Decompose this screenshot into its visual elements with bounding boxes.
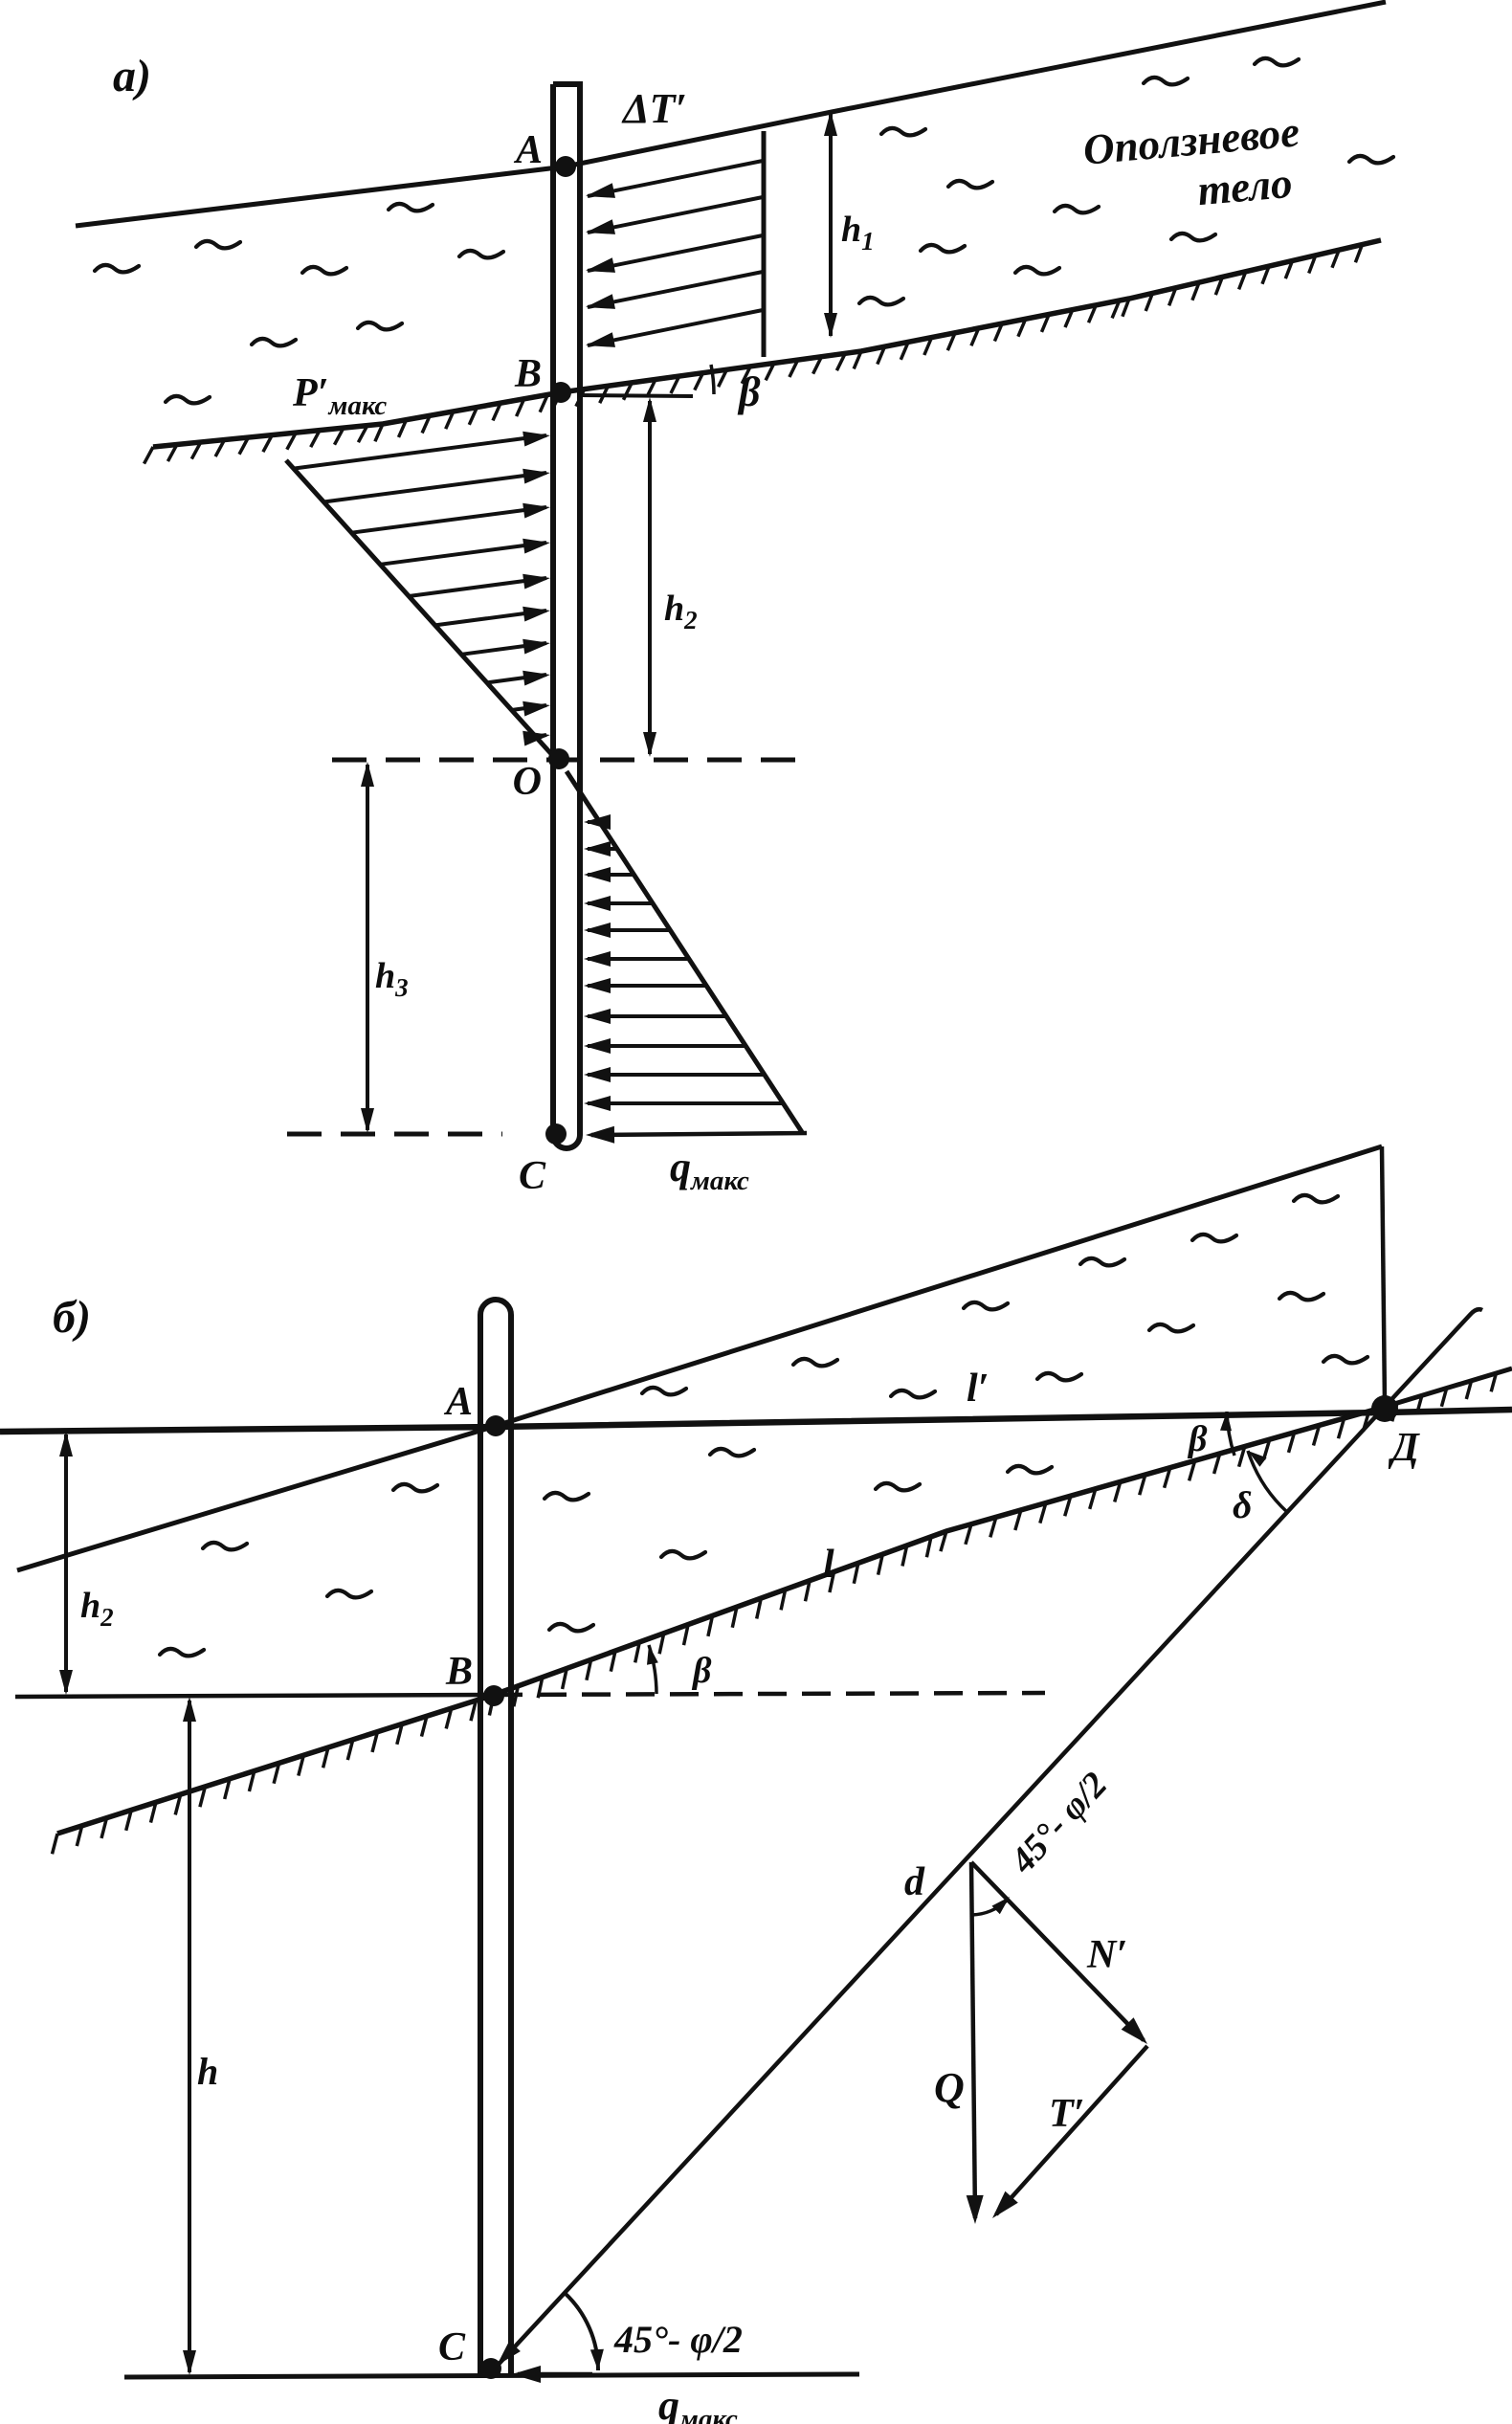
svg-text:45°- φ/2: 45°- φ/2 (613, 2318, 743, 2361)
svg-text:h: h (197, 2050, 218, 2093)
svg-text:l′: l′ (967, 1367, 989, 1411)
svg-text:б): б) (53, 1292, 91, 1343)
svg-text:B: B (445, 1650, 473, 1694)
svg-text:C: C (438, 2325, 466, 2369)
svg-text:δ: δ (1233, 1483, 1253, 1526)
svg-text:Q: Q (934, 2064, 965, 2111)
svg-text:N′: N′ (1086, 1933, 1127, 1977)
svg-text:β: β (691, 1651, 712, 1691)
svg-text:Д: Д (1388, 1426, 1420, 1470)
svg-text:T′: T′ (1049, 2092, 1084, 2136)
svg-text:A: A (443, 1380, 473, 1424)
svg-text:l: l (823, 1543, 834, 1587)
svg-text:A: A (513, 128, 543, 172)
svg-text:β: β (737, 368, 761, 415)
svg-text:C: C (519, 1154, 546, 1198)
svg-text:β: β (1187, 1419, 1208, 1459)
svg-text:O: O (513, 760, 542, 804)
svg-text:тело: тело (1195, 159, 1294, 214)
svg-text:B: B (514, 352, 542, 396)
svg-text:а): а) (113, 51, 151, 101)
svg-text:d: d (904, 1860, 925, 1904)
svg-text:ΔT′: ΔT′ (621, 85, 687, 132)
